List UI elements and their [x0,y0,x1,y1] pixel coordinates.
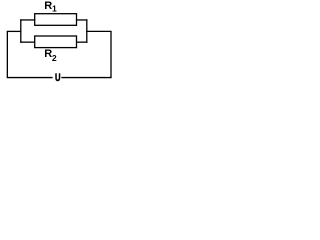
wire outer left [6,31,8,77]
resistor R1 [35,14,77,26]
resistor R2 [35,36,77,48]
junction bar left [20,19,22,43]
svg-text:1: 1 [52,3,57,13]
label R2 [44,48,57,63]
label R1 [44,0,57,13]
wire right connector [86,30,111,32]
wire outer right [110,31,112,77]
wire R1 left lead [20,19,35,21]
junction bar right [86,19,88,43]
voltage source U [53,72,62,85]
wire R1 right lead [76,19,87,21]
svg-text:R: R [44,0,52,12]
wire left connector [7,30,22,32]
svg-text:U: U [55,72,61,85]
svg-text:2: 2 [52,53,57,63]
wire outer bottom [7,77,112,79]
wire R2 right lead [76,41,87,43]
wire R2 left lead [20,41,35,43]
